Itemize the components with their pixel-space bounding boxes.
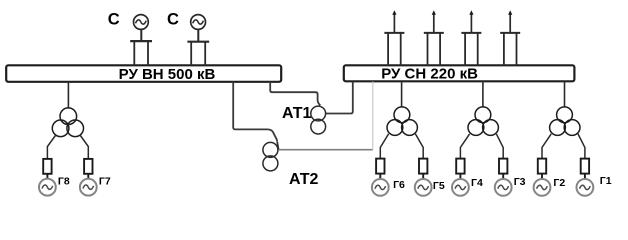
generator G7 circle bbox=[80, 179, 97, 196]
svg-text:РУ ВН 500 кВ: РУ ВН 500 кВ bbox=[119, 66, 216, 83]
three-winding transformer TR1 bbox=[387, 107, 417, 135]
svg-text:С: С bbox=[108, 11, 120, 29]
stub G2 bbox=[541, 174, 543, 180]
stub G5 bbox=[422, 174, 424, 180]
breaker rect G3 bbox=[499, 159, 507, 174]
wire TR1 to breaker of G5 bbox=[415, 134, 423, 159]
outgoing line bay 2 bbox=[424, 10, 444, 66]
generator G4 circle bbox=[452, 179, 469, 196]
unit group R3: stem from 220kV bus bbox=[564, 81, 566, 107]
source C2 bay: stem, bar, legs bbox=[187, 30, 209, 66]
svg-text:С: С bbox=[167, 11, 179, 29]
outgoing line bay 1 (above 220 kV bus) bbox=[384, 10, 404, 66]
wire TR2 to breaker of G3 bbox=[496, 134, 503, 159]
svg-text:АТ1: АТ1 bbox=[282, 105, 312, 122]
svg-text:Г3: Г3 bbox=[514, 176, 526, 188]
busbar РУ СН 220 кВ bbox=[344, 65, 575, 82]
svg-text:Г1: Г1 bbox=[600, 175, 612, 187]
three-winding transformer TL bbox=[52, 108, 83, 137]
three-winding transformer TR2 bbox=[468, 107, 498, 135]
stub G3 bbox=[502, 174, 504, 180]
generator G2 circle bbox=[534, 179, 551, 196]
svg-text:АТ2: АТ2 bbox=[289, 171, 319, 188]
unit group R1: stem from 220kV bus bbox=[401, 81, 403, 107]
wire TR3 to breaker of G2 bbox=[542, 134, 551, 159]
stub G7 bbox=[87, 174, 89, 179]
breaker rect G7 bbox=[84, 159, 92, 174]
wire AT1 to 220kV bus bbox=[326, 82, 353, 114]
breaker rect G8 bbox=[43, 159, 51, 174]
svg-text:Г5: Г5 bbox=[433, 180, 445, 192]
junction at AT2 right bbox=[277, 141, 278, 149]
wire 500kV bus to AT2 bbox=[233, 82, 277, 142]
svg-text:РУ СН 220 кВ: РУ СН 220 кВ bbox=[381, 65, 478, 82]
three-winding transformer TR3 bbox=[550, 107, 580, 135]
wire TR3 to breaker of G1 bbox=[578, 134, 585, 159]
wire AT2 to 220kV bus: vertical light segment bbox=[372, 82, 374, 150]
breaker rect G2 bbox=[538, 159, 546, 174]
generator G1 circle bbox=[577, 179, 594, 196]
generator G3 circle bbox=[495, 179, 512, 196]
generator G5 circle bbox=[415, 179, 432, 196]
autotransformer AT2 bbox=[263, 142, 278, 171]
breaker rect G6 bbox=[376, 159, 384, 174]
stub G4 bbox=[459, 174, 461, 180]
svg-text:Г8: Г8 bbox=[58, 176, 70, 188]
svg-text:Г7: Г7 bbox=[99, 176, 111, 188]
stub G6 bbox=[379, 174, 381, 180]
wire TL to breaker of G8 bbox=[47, 135, 55, 159]
outgoing line bay 4 bbox=[500, 10, 520, 66]
generator G8 circle bbox=[39, 179, 56, 196]
unit group L: stem from 500kV bus bbox=[67, 82, 69, 108]
generator G6 circle bbox=[372, 179, 389, 196]
breaker rect G5 bbox=[419, 159, 427, 174]
outgoing line bay 3 bbox=[461, 10, 481, 66]
wire TR1 to breaker of G6 bbox=[380, 134, 388, 159]
source C1 generator circle bbox=[134, 15, 149, 30]
source C2 generator circle bbox=[191, 15, 206, 30]
wire TL to breaker of G7 bbox=[80, 135, 88, 159]
wire TR2 to breaker of G4 bbox=[460, 134, 469, 159]
svg-text:Г6: Г6 bbox=[393, 179, 405, 191]
unit group R2: stem from 220kV bus bbox=[482, 81, 484, 107]
stub G8 bbox=[46, 174, 48, 179]
source C1 bay: stem, bar, legs bbox=[130, 30, 152, 66]
breaker rect G4 bbox=[456, 159, 464, 174]
stub G1 bbox=[584, 174, 586, 180]
svg-text:Г4: Г4 bbox=[471, 177, 483, 189]
wire 500kV bus to AT1 bbox=[270, 82, 320, 106]
wire AT2 to 220kV bus: horizontal gray segment bbox=[278, 149, 373, 151]
svg-text:Г2: Г2 bbox=[553, 177, 565, 189]
autotransformer AT1 bbox=[311, 106, 326, 134]
breaker rect G1 bbox=[581, 159, 589, 174]
busbar РУ ВН 500 кВ bbox=[6, 65, 281, 83]
